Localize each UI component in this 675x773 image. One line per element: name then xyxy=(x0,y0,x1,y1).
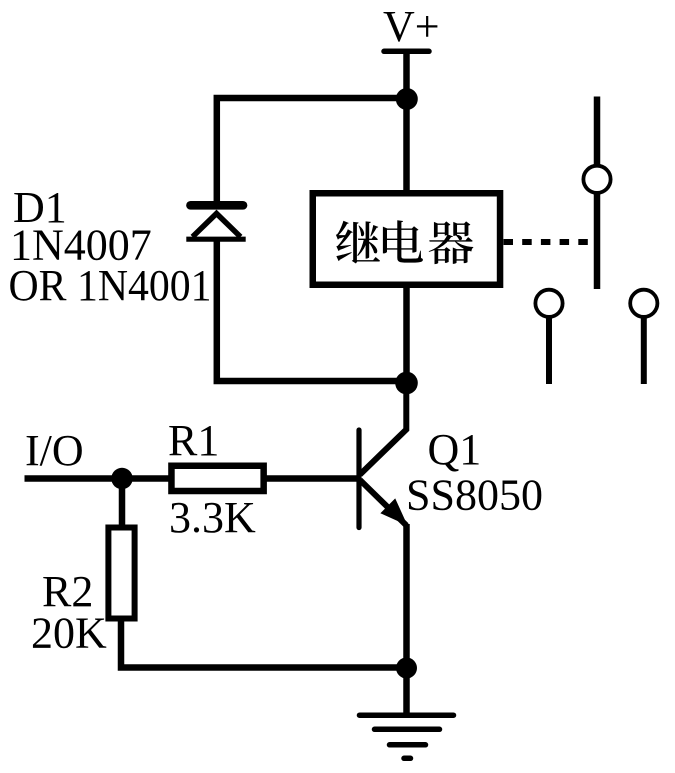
svg-text:3.3K: 3.3K xyxy=(169,493,256,542)
svg-text:SS8050: SS8050 xyxy=(406,471,543,520)
svg-text:OR 1N4001: OR 1N4001 xyxy=(9,261,212,310)
svg-text:R1: R1 xyxy=(168,416,219,465)
svg-text:20K: 20K xyxy=(31,609,107,658)
svg-text:V+: V+ xyxy=(383,2,440,51)
svg-text:I/O: I/O xyxy=(25,426,84,475)
svg-text:Q1: Q1 xyxy=(428,425,482,474)
